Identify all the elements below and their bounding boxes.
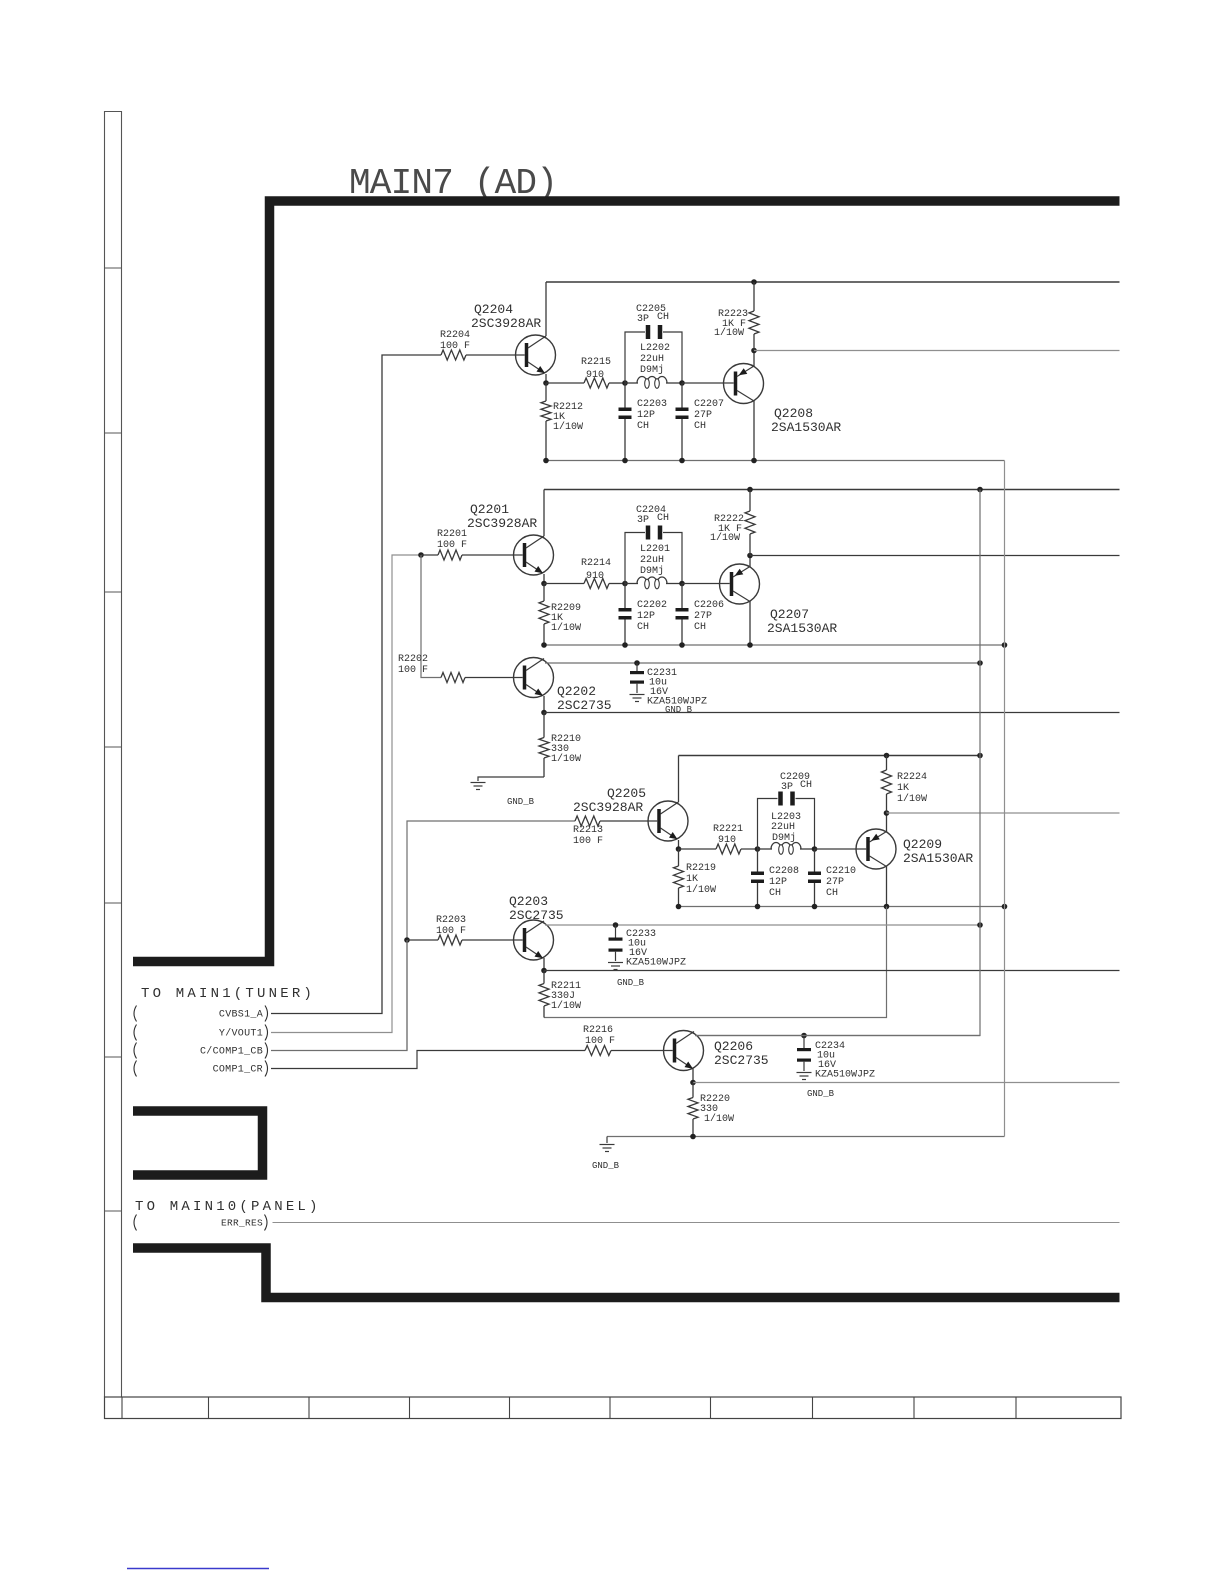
wire CVBS1_A to R2204: [271, 355, 441, 1014]
svg-text:L2201: L2201: [640, 544, 670, 555]
svg-text:Q2202: Q2202: [557, 684, 596, 699]
svg-text:2SA1530AR: 2SA1530AR: [903, 851, 973, 866]
wire Q2201 emitter: [543, 574, 545, 584]
svg-text:100 F: 100 F: [437, 540, 467, 551]
transistor Q2203: [523, 928, 527, 952]
svg-text:2SC2735: 2SC2735: [557, 698, 612, 713]
wire ground vertical net: [1004, 461, 1006, 1137]
svg-text:L2202: L2202: [640, 343, 670, 354]
svg-text:KZA510WJPZ: KZA510WJPZ: [815, 1070, 875, 1081]
svg-text:2SA1530AR: 2SA1530AR: [767, 621, 837, 636]
resistor R2223: [751, 279, 757, 285]
svg-text:12P: 12P: [637, 410, 655, 421]
svg-text:R2204: R2204: [440, 330, 470, 341]
capacitor C2204 bypass loop: [625, 533, 645, 584]
resistor R2221: [716, 844, 741, 854]
svg-text:3P: 3P: [637, 314, 649, 325]
transistor Q2207: [730, 572, 734, 596]
capacitor C2234 electrolytic: [803, 1036, 805, 1049]
node Q2203 collector to supply vertical: [977, 922, 983, 928]
transistor Q2202: [523, 666, 527, 690]
resistor R2211: [543, 971, 545, 984]
wire to Q2207 base: [682, 583, 730, 585]
wire R2210 to ground: [478, 777, 544, 781]
resistor R2219: [678, 849, 680, 866]
transistor Q2204: [525, 343, 529, 367]
svg-text:R2216: R2216: [583, 1025, 613, 1036]
capacitor C2203: [624, 383, 626, 408]
svg-text:100 F: 100 F: [398, 665, 428, 676]
svg-text:R2219: R2219: [686, 863, 716, 874]
wire Y/VOUT1 to node: [271, 555, 421, 1033]
transistor Q2206: [673, 1039, 677, 1063]
wire node to R2201: [421, 554, 438, 556]
svg-text:C/COMP1_CB: C/COMP1_CB: [200, 1046, 263, 1058]
svg-text:C2207: C2207: [694, 399, 724, 410]
wire R2213 to Q2205 base: [600, 820, 657, 822]
node C2231 junction: [634, 660, 640, 666]
svg-text:CH: CH: [800, 780, 812, 791]
capacitor C2209 bypass loop: [758, 799, 778, 850]
svg-text:1/10W: 1/10W: [710, 532, 740, 544]
svg-text:CH: CH: [637, 622, 649, 633]
svg-text:GND_B: GND_B: [592, 1161, 620, 1171]
blue footer line: [127, 1568, 269, 1570]
svg-text:CH: CH: [657, 513, 669, 524]
wire R2202 to Q2202 base: [465, 677, 523, 679]
capacitor C2208: [757, 849, 759, 872]
svg-text:R2214: R2214: [581, 558, 611, 569]
svg-text:1K: 1K: [686, 874, 698, 885]
capacitor C2202: [624, 584, 626, 609]
svg-text:100 F: 100 F: [436, 926, 466, 937]
wire R2221 to node: [741, 848, 758, 850]
svg-text:910: 910: [586, 571, 604, 582]
title block table: [105, 1397, 1122, 1419]
svg-text:C2203: C2203: [637, 399, 667, 410]
transistor Q2205: [657, 809, 661, 833]
svg-text:D9Mj: D9Mj: [640, 565, 664, 577]
resistor R2201: [438, 550, 462, 560]
wire Q2203 collector rail: [545, 924, 980, 926]
wire R2223 output: [754, 350, 1120, 352]
svg-text:2SC2735: 2SC2735: [714, 1053, 769, 1068]
wire R2222 output: [750, 555, 1120, 557]
wire Q2206 collector rail: [695, 1035, 980, 1037]
wire Q2208 collector to ground rail: [753, 401, 755, 461]
svg-text:Q2203: Q2203: [509, 894, 548, 909]
svg-text:1/10W: 1/10W: [897, 793, 927, 805]
inductor L2203: [758, 848, 773, 850]
svg-text:1/10W: 1/10W: [551, 1000, 581, 1012]
svg-text:CH: CH: [657, 312, 669, 323]
svg-text:D9Mj: D9Mj: [772, 832, 796, 844]
resistor R2210: [543, 713, 545, 738]
wire Q2202 collector rail: [545, 662, 980, 664]
ground rail block2: [544, 644, 1005, 646]
ground C2234 GND_B: [797, 1072, 812, 1074]
wire R2224 output: [887, 812, 1120, 814]
capacitor C2233 electrolytic: [615, 925, 617, 938]
sheet border left ruler: [104, 111, 106, 1397]
svg-text:2SC3928AR: 2SC3928AR: [573, 800, 643, 815]
svg-text:CH: CH: [694, 421, 706, 432]
wire Q2207 collector to ground rail: [749, 601, 751, 645]
capacitor C2207: [681, 383, 683, 408]
node top rail block2: [544, 489, 1120, 491]
svg-text:3P: 3P: [637, 515, 649, 526]
svg-text:GND_B: GND_B: [807, 1089, 835, 1099]
capacitor C2206: [681, 584, 683, 609]
thick block border bottom: [133, 1248, 1120, 1298]
svg-text:R2213: R2213: [573, 825, 603, 836]
wire Q2207 emitter to R2222: [749, 556, 751, 568]
svg-text:12P: 12P: [637, 611, 655, 622]
svg-text:COMP1_CR: COMP1_CR: [213, 1065, 263, 1076]
svg-text:2SA1530AR: 2SA1530AR: [771, 420, 841, 435]
svg-text:Q2201: Q2201: [470, 502, 509, 517]
node Y/VOUT1 split: [418, 552, 424, 558]
capacitor C2210: [814, 849, 816, 872]
svg-text:R2203: R2203: [436, 915, 466, 926]
pin C/COMP1_CB: [134, 1043, 137, 1059]
svg-text:Q2204: Q2204: [474, 302, 513, 317]
capacitor C2231 electrolytic: [636, 663, 638, 671]
svg-text:KZA510WJPZ: KZA510WJPZ: [626, 958, 686, 969]
wire Q2203 emitter output: [543, 958, 545, 971]
node C/COMP1_CB split to R2203: [404, 937, 410, 943]
svg-text:1K: 1K: [897, 783, 909, 794]
wire R2203 to Q2203 base: [462, 939, 523, 941]
svg-text:Y/VOUT1: Y/VOUT1: [219, 1028, 263, 1040]
ground C2231 GND_B: [630, 694, 645, 696]
transistor Q2208: [734, 372, 738, 396]
node C2210 junction: [812, 846, 818, 852]
svg-text:1/10W: 1/10W: [704, 1113, 734, 1125]
wire R2215 to node: [609, 382, 625, 384]
transistor Q2201: [523, 543, 527, 567]
resistor R2214: [584, 579, 609, 589]
svg-text:R2201: R2201: [437, 529, 467, 540]
resistor R2202: [441, 673, 465, 683]
resistor R2204: [441, 350, 466, 360]
wire Q2205 emitter: [678, 840, 680, 849]
wire Q2209 collector to ground rail: [886, 867, 888, 907]
wire C/COMP1_CB riser: [271, 821, 575, 1051]
node gnd vertical joins block2 rail: [1002, 642, 1008, 648]
svg-text:TO MAIN1(TUNER): TO MAIN1(TUNER): [141, 986, 315, 1002]
wire Q2202 emitter output: [543, 696, 545, 713]
svg-text:1/10W: 1/10W: [714, 327, 744, 339]
wire R2216 to Q2206 base: [611, 1050, 673, 1052]
capacitor C2205 bypass loop: [625, 332, 645, 383]
node C2234 junction: [801, 1033, 807, 1039]
thick connector cutout frame: [133, 1111, 263, 1175]
inductor L2201: [625, 583, 638, 585]
wire Q2204 collector to top rail: [545, 282, 547, 336]
wire to Q2209 base: [815, 848, 867, 850]
wire filter row block1: [546, 382, 584, 384]
svg-text:ERR_RES: ERR_RES: [221, 1218, 263, 1229]
svg-text:Q2206: Q2206: [714, 1039, 753, 1054]
svg-text:2SC3928AR: 2SC3928AR: [471, 316, 541, 331]
wire R2214 to node: [609, 583, 625, 585]
node supply vertical joins block2 rail: [977, 487, 983, 493]
svg-text:2SC2735: 2SC2735: [509, 908, 564, 923]
node C2206 junction: [679, 581, 685, 587]
resistor R2224: [884, 753, 890, 759]
svg-text:100 F: 100 F: [573, 836, 603, 847]
wire R2201 to Q2201 base: [462, 554, 523, 556]
pin CVBS1_A: [134, 1006, 137, 1022]
svg-text:Q2207: Q2207: [770, 607, 809, 622]
svg-text:R2224: R2224: [897, 772, 927, 783]
svg-text:CH: CH: [826, 888, 838, 899]
svg-text:27P: 27P: [826, 877, 844, 888]
node Q2202 collector to supply vertical: [977, 660, 983, 666]
node top rail block3: [679, 755, 981, 757]
svg-text:1/10W: 1/10W: [686, 884, 716, 896]
wire COMP1_CR to R2216: [271, 1051, 585, 1069]
svg-text:CH: CH: [694, 622, 706, 633]
node C2207 junction: [679, 380, 685, 386]
svg-text:100 F: 100 F: [585, 1036, 615, 1047]
svg-text:CH: CH: [637, 421, 649, 432]
resistor R2213: [575, 816, 600, 826]
pin ERR_RES: [134, 1215, 137, 1231]
svg-text:27P: 27P: [694, 611, 712, 622]
resistor R2222: [747, 487, 753, 493]
wire Q2205 collector to top rail: [678, 756, 680, 803]
resistor R2215: [584, 378, 609, 388]
ground GND_B below R2210: [471, 782, 486, 784]
svg-text:27P: 27P: [694, 410, 712, 421]
node gnd vertical joins block3 rail: [1002, 904, 1008, 910]
svg-text:R2215: R2215: [581, 357, 611, 368]
svg-text:C2202: C2202: [637, 600, 667, 611]
resistor R2216: [585, 1046, 611, 1056]
node C2233 junction: [613, 922, 619, 928]
svg-text:GND_B: GND_B: [617, 978, 645, 988]
ground rail block3: [679, 906, 1005, 908]
svg-text:C2206: C2206: [694, 600, 724, 611]
svg-text:Q2205: Q2205: [607, 786, 646, 801]
pin COMP1_CR: [134, 1061, 137, 1077]
thick block border top-left: [133, 201, 1120, 962]
resistor R2209: [543, 584, 545, 602]
ground GND_B below R2220: [606, 1137, 608, 1144]
svg-text:3P: 3P: [781, 782, 793, 793]
svg-text:2SC3928AR: 2SC3928AR: [467, 516, 537, 531]
wire R2220 ground rail: [607, 1136, 1005, 1138]
svg-text:22uH: 22uH: [640, 354, 664, 365]
ground C2233 GND_B: [608, 962, 623, 964]
wire C/COMP1_CB down to row3: [406, 940, 408, 1051]
svg-text:C2208: C2208: [769, 866, 799, 877]
resistor R2203: [438, 935, 462, 945]
wire R2204 to Q2204 base: [466, 354, 525, 356]
svg-text:22uH: 22uH: [771, 822, 795, 833]
svg-text:D9Mj: D9Mj: [640, 364, 664, 376]
svg-text:1/10W: 1/10W: [551, 753, 581, 765]
resistor R2220: [692, 1083, 694, 1098]
pin Y/VOUT1: [134, 1025, 137, 1041]
svg-text:GND_B: GND_B: [507, 797, 535, 807]
svg-text:CH: CH: [769, 888, 781, 899]
svg-text:CVBS1_A: CVBS1_A: [219, 1010, 263, 1021]
svg-text:Q2208: Q2208: [774, 406, 813, 421]
transistor Q2209: [866, 837, 870, 861]
svg-text:100 F: 100 F: [440, 341, 470, 352]
node top rail block1: [546, 281, 1120, 283]
svg-text:12P: 12P: [769, 877, 787, 888]
svg-text:TO MAIN10(PANEL): TO MAIN10(PANEL): [135, 1199, 321, 1215]
wire Q2206 emitter output: [692, 1069, 694, 1083]
wire Q2204 emitter: [545, 374, 547, 383]
svg-text:GND_B: GND_B: [665, 705, 693, 715]
wire Q2209 emitter to R2224: [886, 813, 888, 832]
node supply tap block3: [977, 753, 983, 759]
svg-text:R2202: R2202: [398, 654, 428, 665]
wire filter row block2: [544, 583, 584, 585]
wire to Q2208 base: [682, 382, 734, 384]
resistor R2212: [545, 383, 547, 401]
svg-text:910: 910: [718, 835, 736, 846]
wire block3 gnd link down to R2211: [544, 907, 887, 1018]
wire supply vertical net: [695, 490, 980, 1036]
wire filter row block3: [679, 848, 717, 850]
svg-text:22uH: 22uH: [640, 555, 664, 566]
ground rail block1: [546, 460, 1005, 462]
svg-text:C2210: C2210: [826, 866, 856, 877]
svg-text:1/10W: 1/10W: [553, 421, 583, 433]
svg-text:Q2209: Q2209: [903, 837, 942, 852]
wire Y/VOUT1 branch down to R2202: [421, 555, 441, 678]
inductor L2202: [625, 382, 638, 384]
svg-text:910: 910: [586, 370, 604, 381]
svg-text:R2221: R2221: [713, 824, 743, 835]
wire Q2201 collector to top rail: [543, 490, 545, 537]
wire ERR_RES output: [273, 1222, 1120, 1224]
svg-text:1/10W: 1/10W: [551, 622, 581, 634]
wire Q2208 emitter to R2223: [753, 351, 755, 367]
